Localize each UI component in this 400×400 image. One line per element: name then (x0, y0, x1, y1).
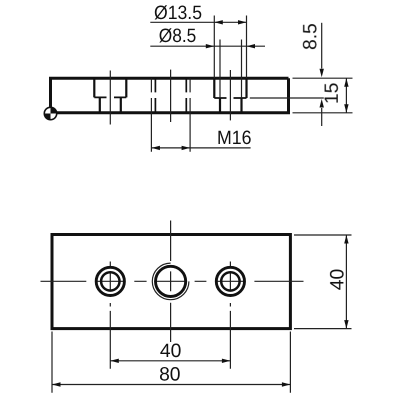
middle hole centerline (170, 70, 172, 122)
top edge extension line right (293, 77, 353, 79)
extension lines for right 40 dimension (294, 235, 352, 329)
bottom edge extension line right (293, 112, 353, 114)
svg-text:Ø8.5: Ø8.5 (159, 26, 197, 47)
plan left hole counterbore circle (96, 267, 124, 295)
right hole centerline (229, 70, 231, 120)
right hole through-hole edges (220, 98, 242, 113)
dimension line 80 (overall width) (52, 382, 290, 386)
svg-text:Ø13.5: Ø13.5 (154, 3, 202, 24)
plan middle hole M16 minor circle (156, 266, 186, 296)
left hole counterbore edges (94, 78, 126, 97)
plan horizontal centerline (41, 280, 304, 282)
extension lines for 80 dimension (52, 332, 290, 393)
dimension line dia 13.5 (150, 20, 246, 24)
plan right hole vertical centerline (229, 262, 231, 307)
dimension 15 (thickness) (344, 78, 348, 113)
extension lines for 40 dimension (110, 311, 230, 369)
svg-text:8.5: 8.5 (300, 23, 321, 50)
plan left hole vertical centerline (109, 262, 111, 307)
plan view: plate rectangle (52, 235, 290, 329)
extension lines for dia 8.5 hole edges (220, 40, 242, 99)
plan middle hole M16 major thread arc (152, 263, 189, 300)
left hole through-hole edges (100, 97, 121, 112)
M16 dimension line (151, 146, 250, 150)
left hole centerline (109, 71, 111, 125)
svg-text:40: 40 (327, 269, 348, 290)
svg-text:M16: M16 (217, 128, 252, 149)
dimension line dia 8.5 (150, 44, 265, 48)
svg-text:80: 80 (159, 364, 180, 385)
svg-text:40: 40 (160, 341, 181, 362)
right hole counterbore edges (214, 78, 246, 98)
dimension line 40 (hole spacing) (110, 359, 230, 363)
plan right hole counterbore circle (216, 267, 244, 295)
plan right hole through circle (221, 272, 239, 290)
M16 thread minor-diameter lines (155, 78, 186, 113)
plan middle hole vertical centerline (170, 221, 172, 343)
M16 dimension extension lines (151, 113, 190, 152)
extension lines above plate for dia 13.5 (214, 16, 246, 79)
plan left hole through circle (101, 272, 119, 290)
dimension line 40 (plate depth) (344, 235, 348, 329)
M16 thread major-diameter lines (151, 78, 190, 113)
ledge extension line right (250, 97, 324, 99)
left hole ledge (94, 96, 126, 98)
svg-text:15: 15 (322, 83, 343, 104)
dimension 8.5 (counterbore depth) (320, 23, 324, 126)
centroid symbol at bottom-left corner (44, 107, 56, 119)
right hole ledge (214, 97, 246, 99)
side view: plate outline (51, 78, 289, 113)
